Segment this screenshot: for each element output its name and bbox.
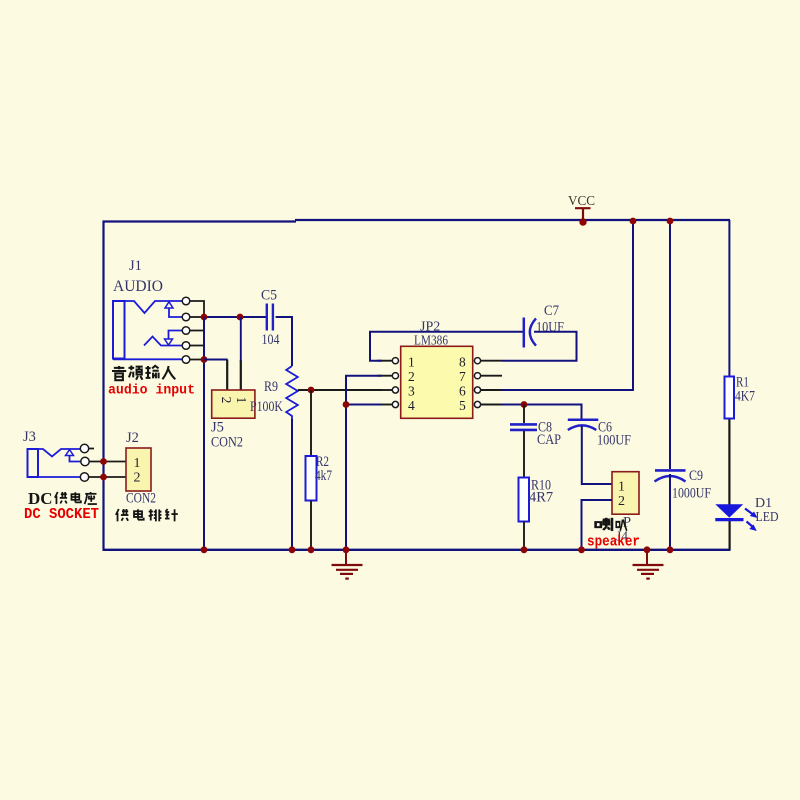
- J1 pin 2 circle: [182, 313, 190, 321]
- J3 sleeve: [28, 476, 80, 478]
- svg-text:C9: C9: [689, 468, 703, 484]
- wire C8 top lead: [523, 405, 525, 424]
- junction rail at 524: [521, 546, 528, 553]
- D1 emission arrow 1: [745, 509, 753, 515]
- junction at 311,390: [308, 387, 315, 394]
- junction rail at 292: [289, 546, 296, 553]
- JP2 pin 8 circle: [474, 358, 480, 364]
- capacitor C5: [267, 304, 273, 331]
- JP2 pin 3 circle: [392, 387, 398, 393]
- svg-text:7: 7: [459, 369, 466, 384]
- svg-text:1: 1: [618, 480, 625, 495]
- J3 pin 3 circle: [80, 473, 88, 481]
- wire jack sleeve to J5 pin2: [204, 359, 228, 361]
- svg-text:CON2: CON2: [211, 435, 243, 451]
- wire C9 bottom lead: [669, 474, 671, 549]
- ground symbol left: [332, 550, 363, 579]
- resistor R1: [725, 377, 735, 419]
- wire pin8 black stub: [481, 360, 502, 362]
- resistor R10: [519, 478, 530, 522]
- J1 tip switch arrow: [165, 302, 173, 308]
- wire J1 pin4 stub: [190, 345, 204, 347]
- wire right side bottom (D1 to rail): [728, 521, 730, 551]
- ground symbol right: [633, 550, 664, 579]
- label 供电排针 (power header chinese): [116, 509, 178, 521]
- IC JP2 LM386 box: [401, 346, 473, 418]
- wire J1 pin5 stub: [190, 359, 204, 361]
- junction at 204,359.5: [201, 356, 208, 363]
- svg-text:C5: C5: [261, 288, 277, 304]
- wire left border vertical: [102, 221, 104, 550]
- connector J3 DC jack body: [28, 449, 82, 477]
- svg-text:R9: R9: [264, 379, 278, 395]
- wire J3 pin3 to J2 pin2: [89, 476, 126, 478]
- wire bottom rail: [103, 549, 731, 551]
- resistor R2: [306, 456, 317, 501]
- junction at 670,221: [667, 218, 674, 225]
- svg-text:1000UF: 1000UF: [672, 486, 711, 502]
- junction rail at 204: [201, 546, 208, 553]
- junction VCC on top rail: [579, 218, 586, 225]
- wire pin2 black stub: [377, 375, 392, 377]
- J3 tip contact: [38, 449, 80, 457]
- J1 ring contact: [144, 337, 182, 346]
- J1 pin 4 circle: [182, 342, 190, 350]
- label 音频输入 (audio input chinese): [112, 366, 175, 381]
- junction rail at 647: [644, 546, 651, 553]
- connector J5 box: [212, 390, 255, 418]
- J1 sleeve: [113, 358, 182, 360]
- junction at 524,404.5: [521, 401, 528, 408]
- capacitor C7 polarized: [524, 318, 536, 348]
- capacitor C8: [510, 424, 537, 430]
- wire R9 wiper to pin3: [298, 389, 382, 391]
- LED D1: [715, 504, 757, 531]
- wire J3 pin2 to J2 pin1: [89, 461, 126, 463]
- svg-text:LM386: LM386: [414, 334, 448, 349]
- D1 emission arrow 2: [747, 522, 754, 528]
- wire R2 bottom lead: [310, 501, 312, 550]
- svg-text:2: 2: [408, 369, 415, 384]
- svg-text:4K7: 4K7: [735, 389, 755, 405]
- wire R9 bottom to rail: [291, 419, 293, 549]
- connector J2 box: [126, 448, 151, 491]
- J1 tip contact: [125, 301, 183, 313]
- wire pin6 to VCC rail: [502, 221, 633, 390]
- svg-text:LED: LED: [756, 510, 779, 525]
- wire J5 pin1 riser: [240, 360, 242, 390]
- connector J1 audio jack body: [113, 301, 182, 359]
- J1 pin 1 circle: [182, 297, 190, 305]
- svg-text:2: 2: [219, 397, 234, 404]
- svg-text:104: 104: [262, 332, 281, 348]
- svg-text:100UF: 100UF: [597, 433, 631, 449]
- svg-text:8: 8: [459, 355, 466, 370]
- wire pin1 to C7 left: [370, 332, 523, 361]
- svg-text:J1: J1: [129, 258, 142, 274]
- svg-text:J5: J5: [211, 420, 224, 436]
- power symbol VCC: [568, 193, 595, 222]
- wire speaker pin2 to rail: [582, 500, 613, 549]
- JP2 pin 4 circle: [392, 401, 398, 407]
- svg-text:J3: J3: [23, 429, 36, 445]
- JP2 pin 5 circle: [474, 401, 480, 407]
- svg-text:1: 1: [234, 397, 249, 404]
- junction rail at 311: [308, 546, 315, 553]
- JP2 pin 6 circle: [474, 387, 480, 393]
- wire J3 pin1 stub: [89, 448, 94, 450]
- junction at 633,221: [630, 218, 637, 225]
- svg-text:4R7: 4R7: [529, 490, 553, 506]
- junction at 204,317: [201, 314, 208, 321]
- J3 pin 2 circle: [81, 457, 89, 465]
- wire pin6 black stub: [481, 389, 502, 391]
- wire R2 top lead: [310, 390, 312, 456]
- svg-text:6: 6: [459, 384, 466, 399]
- wire pin2 to ground drop: [346, 376, 382, 549]
- svg-text:AUDIO: AUDIO: [113, 278, 163, 295]
- junction rail at 581.5: [578, 546, 585, 553]
- svg-text:P100K: P100K: [250, 399, 283, 415]
- svg-text:DC: DC: [28, 489, 53, 508]
- wire pin7 stub no-connect: [481, 375, 502, 377]
- junction at 240,317: [237, 314, 244, 321]
- junction at 346,404.5: [343, 401, 350, 408]
- junction at 103,461.5: [100, 458, 107, 465]
- svg-text:CAP: CAP: [537, 432, 561, 448]
- svg-text:2: 2: [134, 471, 141, 486]
- svg-text:speaker: speaker: [587, 534, 640, 551]
- svg-text:4k7: 4k7: [315, 468, 332, 484]
- JP2 pin 7 circle: [474, 373, 480, 379]
- wire pin5 black stub: [481, 404, 502, 406]
- svg-text:CON2: CON2: [126, 491, 156, 507]
- svg-text:5: 5: [459, 398, 466, 413]
- label DC供电座: [28, 489, 97, 508]
- svg-text:10UF: 10UF: [536, 320, 564, 336]
- J1 pin 5 circle: [182, 356, 190, 364]
- wire pin3 black stub: [377, 389, 392, 391]
- wire pin5 to C6 top: [502, 405, 582, 420]
- capacitor C6 polarized: [568, 420, 599, 430]
- svg-text:D1: D1: [755, 496, 772, 511]
- J1 ring switch arrow: [165, 339, 173, 345]
- potentiometer R9 zigzag: [286, 366, 298, 419]
- JP2 pin 2 circle: [392, 373, 398, 379]
- connector JP speaker box: [612, 472, 639, 515]
- junction at 103,477: [100, 474, 107, 481]
- svg-text:2: 2: [618, 494, 625, 509]
- svg-text:DC SOCKET: DC SOCKET: [24, 507, 99, 523]
- wire R10 bottom lead: [523, 522, 525, 550]
- wire right side mid (R1 to D1): [728, 419, 730, 506]
- wire right side top (rail to R1): [728, 220, 730, 377]
- svg-text:3: 3: [408, 384, 415, 399]
- svg-text:4: 4: [408, 398, 415, 413]
- wire C8 bottom lead: [523, 431, 525, 478]
- wire C7 right to pin8: [502, 332, 577, 361]
- capacitor C9 polarized: [655, 470, 686, 481]
- wire top rail right segment: [295, 219, 730, 221]
- wire audio signal node to C5: [204, 316, 266, 318]
- J3 switch arrow: [66, 450, 74, 456]
- wire J1 pin1 to node: [190, 301, 204, 317]
- JP2 pin 1 circle: [392, 358, 398, 364]
- wire ground drop from jack: [203, 317, 205, 549]
- wire top rail left segment: [103, 220, 297, 222]
- junction rail at 346: [343, 546, 350, 553]
- svg-text:1: 1: [134, 456, 141, 471]
- svg-text:J2: J2: [126, 430, 139, 446]
- wire pin4 to ground drop: [346, 404, 382, 406]
- wire C6 bottom to speaker pin1: [582, 426, 612, 484]
- wire C5 to R9 top: [276, 317, 292, 366]
- J3 pin 1 circle: [80, 444, 88, 452]
- svg-text:1: 1: [408, 355, 415, 370]
- wire C9 top riser from rail: [669, 221, 671, 469]
- svg-text:audio input: audio input: [108, 383, 195, 399]
- wire J1 pin3 stub: [190, 330, 204, 332]
- wire pin1 black stub: [377, 360, 392, 362]
- junction rail at 670: [667, 546, 674, 553]
- svg-text:C7: C7: [544, 303, 559, 319]
- wire J1 pin2 stub: [190, 316, 204, 318]
- wire pin4 black stub: [377, 404, 392, 406]
- label 喇叭 (speaker chinese): [596, 518, 627, 531]
- svg-text:VCC: VCC: [568, 193, 595, 208]
- J1 pin 3 circle: [182, 327, 190, 335]
